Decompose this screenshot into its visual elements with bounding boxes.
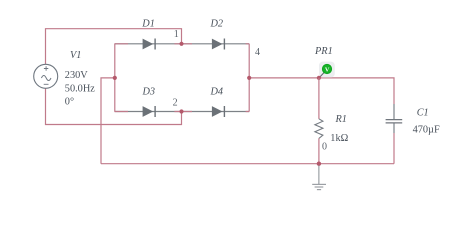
voltage source V1 bbox=[34, 64, 58, 88]
wire: left junction to ground rail bbox=[101, 78, 115, 164]
svg-text:V: V bbox=[325, 66, 330, 73]
svg-text:D3: D3 bbox=[142, 87, 156, 98]
diode D3 bbox=[143, 106, 156, 117]
bottom diode row wire bbox=[115, 111, 249, 113]
wire C1 bottom to rail bbox=[393, 133, 395, 164]
probe PR1 bbox=[319, 62, 335, 78]
probe junction dot bbox=[317, 76, 321, 80]
wire bottom: source bottom to node 2 bbox=[46, 88, 182, 124]
output wire node 4 to C1 bbox=[249, 78, 394, 104]
svg-text:230V: 230V bbox=[65, 70, 88, 81]
svg-text:50.0Hz: 50.0Hz bbox=[65, 83, 95, 94]
svg-text:1kΩ: 1kΩ bbox=[330, 133, 348, 144]
bridge right vertical wire bbox=[248, 44, 250, 112]
svg-text:D4: D4 bbox=[210, 87, 224, 98]
node junction left bbox=[113, 76, 117, 80]
svg-text:2: 2 bbox=[173, 97, 178, 108]
diode D2 bbox=[212, 39, 225, 50]
svg-text:R1: R1 bbox=[335, 114, 347, 125]
svg-text:0: 0 bbox=[322, 141, 327, 152]
svg-text:470µF: 470µF bbox=[413, 125, 440, 136]
node 2 junction bbox=[179, 109, 183, 113]
top diode row wire bbox=[115, 43, 249, 45]
node 4 junction bbox=[247, 76, 251, 80]
wire top: source top to node 1 bbox=[46, 29, 182, 65]
node 1 junction bbox=[179, 42, 183, 46]
svg-text:D2: D2 bbox=[210, 18, 224, 29]
svg-text:1: 1 bbox=[174, 29, 179, 40]
diode D4 bbox=[212, 106, 225, 117]
bottom rail bbox=[101, 163, 394, 165]
ground junction dot bbox=[317, 162, 321, 166]
bridge left vertical wire bbox=[114, 44, 116, 112]
resistor R1 bbox=[318, 78, 320, 119]
svg-text:PR1: PR1 bbox=[314, 46, 333, 57]
capacitor C1 bbox=[386, 104, 403, 133]
svg-text:D1: D1 bbox=[141, 18, 155, 29]
svg-text:4: 4 bbox=[255, 47, 260, 58]
diode D1 bbox=[143, 39, 156, 50]
svg-text:V1: V1 bbox=[70, 50, 81, 61]
ground bbox=[312, 166, 326, 190]
svg-text:0°: 0° bbox=[65, 97, 74, 108]
svg-text:C1: C1 bbox=[417, 107, 429, 118]
